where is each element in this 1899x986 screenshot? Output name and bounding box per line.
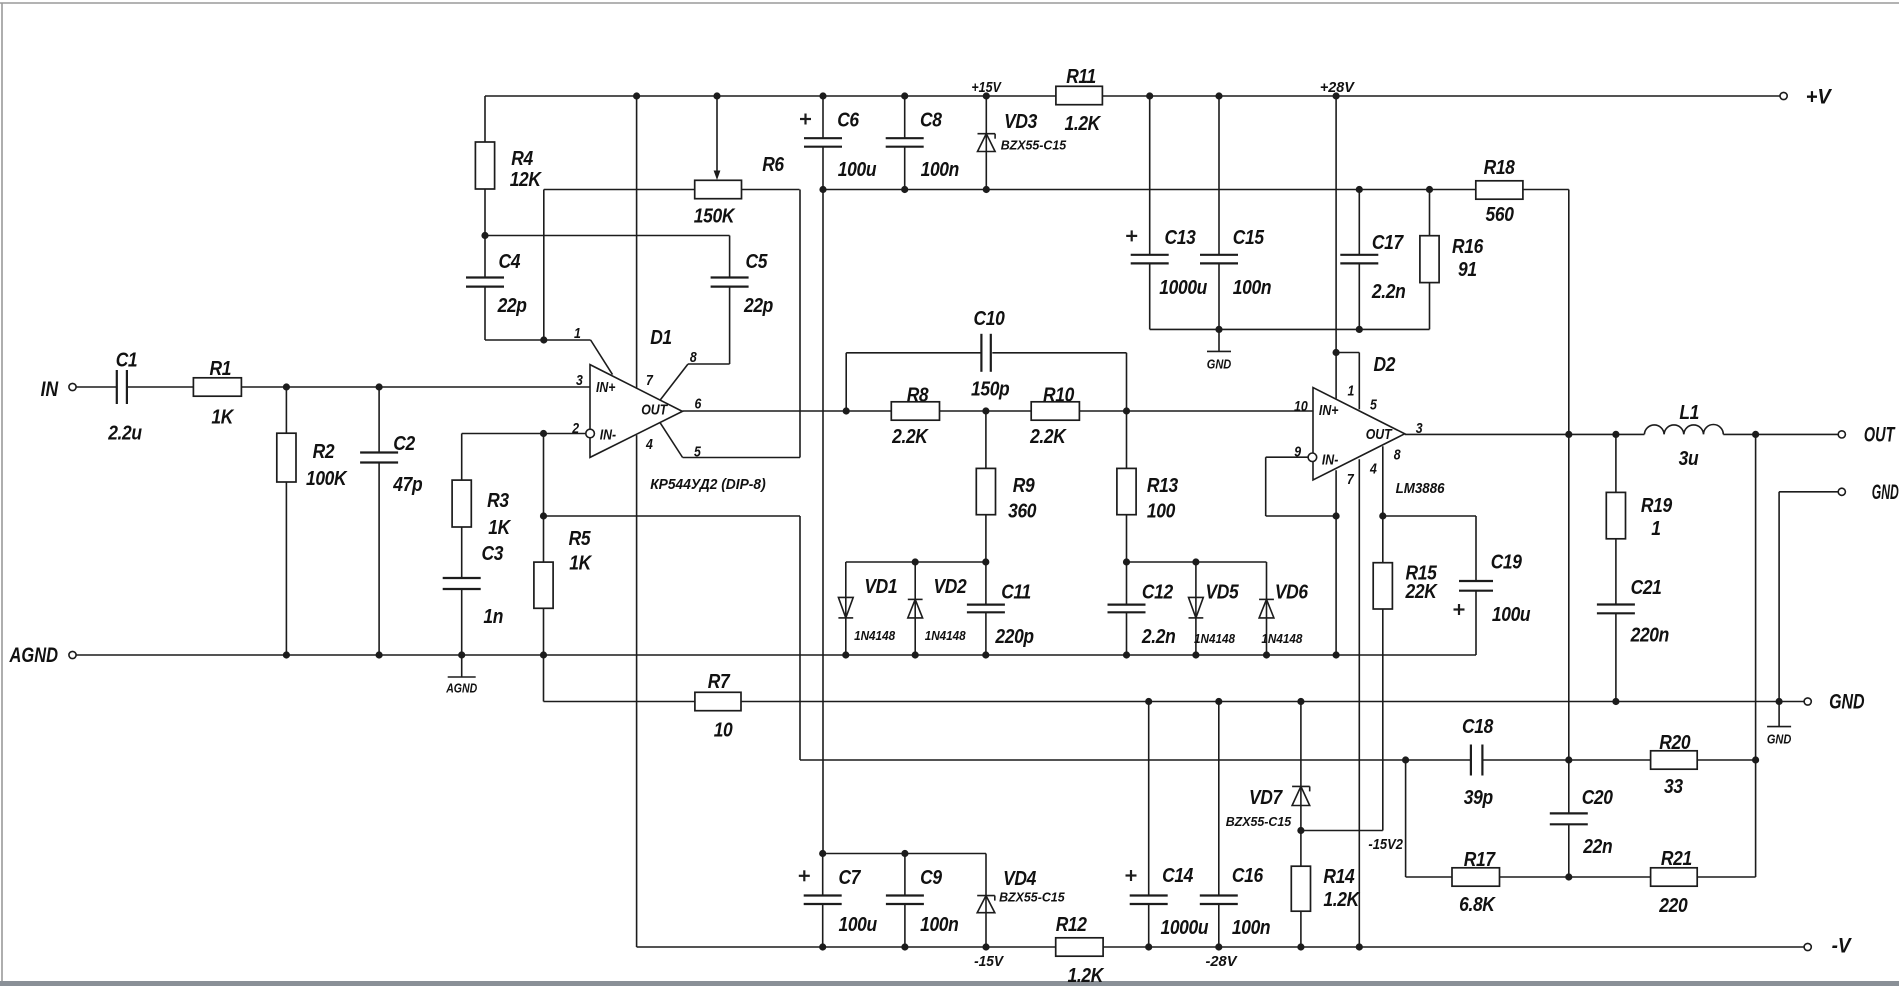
svg-text:2.2n: 2.2n <box>1371 281 1405 304</box>
wire R2 branch x=286.4 <box>285 387 287 655</box>
wire R17/R21 row y=877 <box>1406 876 1756 878</box>
wire D1 pin8 diagonal <box>660 364 688 400</box>
node D1 pin2 <box>540 430 547 437</box>
wire D2 feedback left leg x=1265.7 <box>1265 457 1267 516</box>
capacitor C10 <box>980 334 982 372</box>
svg-text:150K: 150K <box>694 205 736 228</box>
svg-text:1: 1 <box>1347 383 1354 399</box>
svg-text:VD7: VD7 <box>1249 787 1284 810</box>
capacitor C19 (electrolytic) <box>1459 580 1493 582</box>
wire C15 x=1219 <box>1218 96 1220 255</box>
wire D2 pin5 x=1359.3 <box>1358 353 1360 410</box>
svg-text:47p: 47p <box>392 474 422 497</box>
wire D2 feedback link y=516 <box>1266 515 1336 517</box>
svg-text:BZX55-C15: BZX55-C15 <box>1226 815 1293 829</box>
node Zobel row <box>1402 756 1759 763</box>
svg-text:R9: R9 <box>1013 475 1035 498</box>
svg-text:IN-: IN- <box>600 427 617 443</box>
wire GND cap rail y=329.4 (C13/C15/C17/R16 bottoms) <box>1150 328 1430 330</box>
svg-text:GND: GND <box>1872 481 1899 504</box>
wire C10 right leg / R13 / C12 x=1126.5 <box>1126 353 1128 605</box>
svg-text:R6: R6 <box>762 154 784 177</box>
wire C6 top x=823 <box>822 96 824 138</box>
capacitor C20 <box>1550 812 1588 814</box>
node AGND rail <box>283 651 1340 658</box>
svg-text:R3: R3 <box>487 490 509 513</box>
resistor R13 <box>1117 468 1136 514</box>
capacitor C2 <box>360 451 398 453</box>
capacitor C21 <box>1597 603 1635 605</box>
svg-text:1.2K: 1.2K <box>1067 965 1104 986</box>
svg-text:IN+: IN+ <box>596 379 616 395</box>
svg-text:2.2n: 2.2n <box>1141 626 1175 649</box>
svg-text:7: 7 <box>646 372 653 388</box>
svg-text:C8: C8 <box>920 109 942 132</box>
wire R18 right drop / C20 x=1568.8 <box>1568 190 1570 814</box>
wire GND terminal drop x=1779.1 <box>1778 492 1780 727</box>
wire VD5 x=1195.9 <box>1195 562 1197 655</box>
wire R6 wiper arrow stem x=717 <box>716 96 718 176</box>
svg-text:100u: 100u <box>838 914 877 937</box>
svg-text:39p: 39p <box>1464 787 1493 810</box>
capacitor C3 <box>443 577 481 579</box>
node GND rail <box>1145 698 1783 705</box>
svg-text:1n: 1n <box>483 606 503 629</box>
svg-text:L1: L1 <box>1679 402 1699 425</box>
wire D1 OUT to D2 IN+ y=411 <box>682 410 1313 412</box>
svg-text:2.2u: 2.2u <box>107 422 142 445</box>
svg-text:C9: C9 <box>920 867 942 890</box>
svg-text:КР544УД2 (DIP-8): КР544УД2 (DIP-8) <box>650 477 766 493</box>
wire VD2 x=915.2 <box>914 562 916 655</box>
wire VD7 x=1300.9 <box>1300 702 1302 831</box>
svg-text:R18: R18 <box>1484 157 1516 180</box>
wire C19 bottom x=1476 <box>1475 591 1477 655</box>
svg-text:1K: 1K <box>569 552 592 575</box>
svg-text:-15V: -15V <box>974 954 1004 970</box>
svg-text:5: 5 <box>694 444 701 460</box>
svg-text:2.2K: 2.2K <box>1029 426 1067 449</box>
svg-text:GND: GND <box>1207 358 1232 372</box>
svg-text:220p: 220p <box>994 626 1033 649</box>
wire VD1/VD2/C11 top rail y=562 <box>846 561 986 563</box>
capacitor C9 <box>886 894 924 896</box>
svg-text:R13: R13 <box>1147 475 1179 498</box>
wire R6 lead row y=189.5 <box>544 189 800 191</box>
svg-text:100u: 100u <box>838 159 877 182</box>
svg-text:R20: R20 <box>1659 732 1691 755</box>
capacitor C18 <box>1470 745 1472 776</box>
wire C12/VD5/VD6 top rail y=562 <box>1127 561 1267 563</box>
resistor R16 <box>1420 236 1439 283</box>
wire R5 branch x=543.5 <box>543 434 545 702</box>
wire C16 x=1218.8 <box>1218 702 1220 896</box>
svg-text:1.2K: 1.2K <box>1323 889 1360 912</box>
svg-text:VD6: VD6 <box>1275 581 1309 604</box>
wire R16 x=1429.5 <box>1429 190 1431 330</box>
wire C4 bottom x=485 <box>484 287 486 340</box>
svg-text:R16: R16 <box>1452 236 1484 259</box>
svg-text:R10: R10 <box>1043 384 1075 407</box>
svg-text:R2: R2 <box>313 441 335 464</box>
node D2 V+ branch <box>1333 349 1340 356</box>
resistor R1 <box>193 378 241 396</box>
svg-text:C5: C5 <box>746 251 768 274</box>
svg-text:1N4148: 1N4148 <box>854 629 895 643</box>
wire C8 bottom x=904.7 <box>904 147 906 190</box>
capacitor C8 <box>886 137 924 139</box>
diode VD1 <box>838 597 853 618</box>
wire -V bottom rail y=947 <box>637 946 1805 948</box>
wire C19 top x=1476 <box>1475 516 1477 581</box>
wire feedback drop x=800 <box>799 516 801 760</box>
wire R3/C3 branch x=461.7 <box>461 434 463 579</box>
wire R4 branch x=485 <box>484 96 486 278</box>
wire C5 top x=729.6 <box>729 236 731 278</box>
svg-text:4: 4 <box>645 436 653 452</box>
svg-text:1K: 1K <box>211 406 234 429</box>
svg-text:3: 3 <box>576 372 583 388</box>
node IN line <box>283 383 383 390</box>
node OUT line <box>1565 431 1759 438</box>
svg-text:C11: C11 <box>1001 581 1031 604</box>
zener diode VD4 <box>977 895 995 897</box>
svg-text:8: 8 <box>690 349 697 365</box>
resistor R6 (trimmer) <box>695 180 742 198</box>
wire Zobel row y=760 <box>800 759 1471 761</box>
capacitor C15 <box>1200 254 1238 256</box>
svg-text:R21: R21 <box>1661 848 1692 871</box>
svg-text:AGND: AGND <box>9 644 58 667</box>
svg-text:R17: R17 <box>1464 849 1497 872</box>
svg-text:10: 10 <box>1294 398 1308 414</box>
wire D2 pin5 jog y=352.5 <box>1336 352 1359 354</box>
terminal GND lower <box>1804 698 1811 705</box>
wire GND rail y=701.5 <box>544 701 1805 703</box>
svg-text:1N4148: 1N4148 <box>925 629 966 643</box>
wire +V top rail (+15V/+28V) <box>485 95 1780 97</box>
resistor R19 <box>1606 492 1625 538</box>
svg-text:100n: 100n <box>1233 277 1271 300</box>
wire D1 V+ pin7 x=636.6 <box>636 96 638 389</box>
svg-text:C14: C14 <box>1162 865 1194 888</box>
svg-text:100K: 100K <box>306 468 348 491</box>
svg-text:IN: IN <box>41 378 59 401</box>
node -V rail <box>819 943 1363 950</box>
svg-text:R1: R1 <box>209 358 231 381</box>
svg-text:1000u: 1000u <box>1159 277 1207 300</box>
resistor R14 <box>1291 866 1310 911</box>
resistor R7 <box>695 692 741 710</box>
svg-text:100: 100 <box>1147 500 1176 523</box>
wire VD1 x=845.8 <box>845 562 847 655</box>
svg-text:VD4: VD4 <box>1003 868 1037 891</box>
svg-text:-28V: -28V <box>1206 954 1238 970</box>
wire D1 pin2 input y=433.5 <box>462 433 586 435</box>
wire VD6 x=1266.5 <box>1266 562 1268 655</box>
resistor R2 <box>277 433 296 482</box>
svg-text:BZX55-C15: BZX55-C15 <box>1001 139 1068 153</box>
wire C9 x=904.9 <box>904 854 906 896</box>
svg-text:100n: 100n <box>1232 917 1270 940</box>
svg-text:91: 91 <box>1458 259 1477 282</box>
svg-text:22p: 22p <box>743 295 773 318</box>
resistor R11 <box>1056 86 1103 104</box>
node D1 pin1 <box>540 336 547 343</box>
svg-text:C18: C18 <box>1462 716 1494 739</box>
svg-text:C16: C16 <box>1232 865 1264 888</box>
svg-text:2.2K: 2.2K <box>891 426 929 449</box>
capacitor C13 (electrolytic) <box>1131 254 1169 256</box>
svg-text:OUT: OUT <box>641 402 669 418</box>
svg-text:33: 33 <box>1664 776 1683 799</box>
svg-text:220: 220 <box>1658 895 1688 918</box>
svg-text:1: 1 <box>1651 518 1660 541</box>
svg-text:OUT: OUT <box>1864 424 1896 447</box>
svg-text:R19: R19 <box>1641 495 1673 518</box>
svg-text:1K: 1K <box>488 517 511 540</box>
terminal OUT <box>1838 431 1845 438</box>
zener diode VD3 <box>978 133 996 135</box>
svg-text:D2: D2 <box>1373 354 1395 377</box>
svg-text:1: 1 <box>574 325 581 341</box>
wire D2 pin8 / R15 x=1382.8 <box>1382 446 1384 830</box>
wire C10 bypass top y=352.8 <box>846 352 981 354</box>
ground symbol GND right <box>1767 726 1791 728</box>
resistor R21 <box>1651 868 1698 886</box>
svg-text:9: 9 <box>1294 444 1301 460</box>
terminal AGND <box>69 651 76 658</box>
wire OUT line left of L1 y=434.4 <box>1405 433 1645 435</box>
diode VD2 <box>908 598 923 600</box>
wire C14 x=1148.7 <box>1148 702 1150 896</box>
svg-text:R11: R11 <box>1066 66 1096 89</box>
op-amp D1 <box>590 365 682 458</box>
svg-text:C10: C10 <box>973 308 1005 331</box>
resistor R8 <box>891 402 939 420</box>
wire IN terminal stub <box>76 386 117 388</box>
svg-text:R7: R7 <box>708 671 731 694</box>
node 0V rail y=189.5 <box>819 186 1433 193</box>
svg-text:VD5: VD5 <box>1206 581 1240 604</box>
svg-text:BZX55-C15: BZX55-C15 <box>999 891 1066 905</box>
svg-text:GND: GND <box>1829 691 1865 714</box>
svg-text:D1: D1 <box>650 327 672 350</box>
node top rail <box>633 92 1340 99</box>
wire GND upper terminal y=491.8 <box>1779 491 1838 493</box>
svg-text:2: 2 <box>571 420 579 436</box>
svg-text:100n: 100n <box>920 914 958 937</box>
svg-text:1N4148: 1N4148 <box>1194 632 1235 646</box>
svg-text:10: 10 <box>714 719 733 742</box>
capacitor C7 (electrolytic) <box>804 894 842 896</box>
svg-text:LM3886: LM3886 <box>1396 481 1446 497</box>
svg-text:4: 4 <box>1369 461 1377 477</box>
wire VD7-R15 link y=830.5 <box>1301 830 1383 832</box>
svg-text:1N4148: 1N4148 <box>1261 632 1302 646</box>
svg-text:5: 5 <box>1370 397 1377 413</box>
svg-text:C6: C6 <box>837 109 859 132</box>
svg-text:1.2K: 1.2K <box>1064 113 1101 136</box>
node D1 out row <box>843 407 1130 414</box>
diode VD5 <box>1189 597 1204 618</box>
svg-text:VD2: VD2 <box>934 576 968 599</box>
svg-text:12K: 12K <box>510 169 542 192</box>
node feedback row <box>540 512 547 519</box>
wire C2 branch x=379.1 <box>378 387 380 453</box>
svg-text:22K: 22K <box>1405 581 1438 604</box>
terminal GND upper <box>1838 488 1845 495</box>
wire C13 x=1149.7 <box>1149 96 1151 255</box>
wire D1 pin5 diagonal <box>660 423 683 458</box>
resistor R20 <box>1651 751 1698 769</box>
svg-text:C7: C7 <box>838 867 861 890</box>
node clamp rail A <box>912 558 990 565</box>
terminal IN <box>69 383 76 390</box>
wire C7/C9/VD4 top rail y=853.5 <box>823 853 986 855</box>
svg-text:8: 8 <box>1394 447 1401 463</box>
svg-text:100u: 100u <box>1492 604 1531 627</box>
wire D1 V- pin4 x=636.6 <box>636 435 638 947</box>
svg-text:22p: 22p <box>497 295 527 318</box>
capacitor C16 <box>1200 894 1238 896</box>
svg-text:C12: C12 <box>1142 581 1174 604</box>
inductor L1 <box>1644 425 1723 435</box>
op-amp D2 <box>1313 388 1405 481</box>
wire feedback row y=516 <box>544 515 801 517</box>
svg-text:R8: R8 <box>907 384 929 407</box>
wire AGND rail y=655 <box>76 654 1476 656</box>
svg-text:100n: 100n <box>921 159 959 182</box>
resistor R9 <box>976 468 995 514</box>
wire C4-C5 top link y=235.5 <box>485 235 730 237</box>
wire R6 right drop to pin5 x=800 <box>799 190 801 458</box>
wire C7 x=822.7 <box>822 854 824 896</box>
wire R19/C21 branch x=1615.9 <box>1615 434 1617 604</box>
capacitor C4 <box>466 276 504 278</box>
svg-text:IN-: IN- <box>1322 452 1339 468</box>
svg-text:C15: C15 <box>1233 227 1265 250</box>
ground symbol AGND <box>461 655 463 677</box>
svg-text:150p: 150p <box>971 378 1009 401</box>
svg-text:C4: C4 <box>498 251 520 274</box>
wire C10 left leg x=846.2 <box>845 353 847 411</box>
capacitor C17 <box>1340 254 1378 256</box>
wire C8 top x=904.7 <box>904 96 906 138</box>
node clamp rail B <box>1123 558 1200 565</box>
capacitor C6 (electrolytic) <box>804 137 842 139</box>
resistor R12 <box>1056 938 1103 956</box>
wire R15 top to C19 y=516 <box>1383 515 1476 517</box>
capacitor C1 <box>116 370 118 404</box>
svg-text:R4: R4 <box>511 148 533 171</box>
wire D1 pin5 row y=457.5 <box>683 457 800 459</box>
wire 0V decoupling rail y=189.5 (C6/C8/VD3 to C17/R16/R18) <box>823 189 1569 191</box>
wire R14 x=1300.9 <box>1300 831 1302 948</box>
resistor R4 <box>475 142 494 189</box>
node C7 rail <box>819 850 908 857</box>
wire C6 bottom / long drop to C7 rail x=823 <box>822 147 824 854</box>
resistor R10 <box>1031 402 1079 420</box>
svg-text:C13: C13 <box>1165 227 1197 250</box>
resistor R15 <box>1373 563 1392 609</box>
wire D2 pin7 x=1336.1 <box>1335 470 1337 655</box>
svg-text:220n: 220n <box>1630 624 1669 647</box>
svg-text:C3: C3 <box>481 543 503 566</box>
zener diode VD7 <box>1292 785 1310 787</box>
arrowhead R6 wiper <box>714 171 721 181</box>
svg-text:C17: C17 <box>1372 232 1405 255</box>
wire VD4 x=986 <box>985 854 987 948</box>
svg-text:GND: GND <box>1767 733 1792 747</box>
ground symbol GND mid <box>1218 329 1220 351</box>
svg-text:C2: C2 <box>393 433 415 456</box>
wire C18 branch drop x=1405.6 <box>1405 760 1407 877</box>
wire R9/C11 branch x=985.9 <box>985 411 987 605</box>
resistor R5 <box>534 562 553 608</box>
wire Zobel row right y=760 <box>1482 759 1755 761</box>
svg-text:C1: C1 <box>116 349 138 372</box>
svg-text:C19: C19 <box>1491 551 1523 574</box>
node cap GND rail <box>1215 326 1363 333</box>
svg-text:360: 360 <box>1008 500 1037 523</box>
svg-text:3u: 3u <box>1679 448 1699 471</box>
svg-text:-15V2: -15V2 <box>1368 837 1403 853</box>
svg-text:22n: 22n <box>1582 836 1612 859</box>
wire C5 bottom x=729.6 <box>729 287 731 364</box>
wire D2 V+ pin1 x=1336.1 <box>1335 96 1337 399</box>
wire VD3 branch x=986.3 <box>985 96 987 190</box>
capacitor C12 <box>1108 603 1146 605</box>
svg-text:C21: C21 <box>1631 577 1662 600</box>
resistor R18 <box>1476 181 1523 199</box>
wire D1 pin8 jog y=364 <box>688 363 730 365</box>
resistor R3 <box>452 480 471 527</box>
svg-text:VD3: VD3 <box>1004 111 1038 134</box>
svg-text:IN+: IN+ <box>1319 402 1339 418</box>
capacitor C14 (electrolytic) <box>1130 894 1168 896</box>
wire C10 bypass top right y=352.8 <box>992 352 1126 354</box>
svg-text:OUT: OUT <box>1366 426 1394 442</box>
wire IN line y=387 <box>127 386 590 388</box>
svg-text:R14: R14 <box>1323 866 1355 889</box>
node R17/R21 row <box>1565 873 1572 880</box>
wire D2 pin4 x=1359.3 <box>1358 459 1360 947</box>
wire D2 pin9 stub y=457.2 <box>1266 456 1308 458</box>
terminal -V <box>1804 943 1811 950</box>
diode VD6 <box>1259 598 1274 600</box>
svg-text:AGND: AGND <box>445 682 477 696</box>
svg-text:VD1: VD1 <box>864 576 897 599</box>
capacitor C5 <box>711 276 749 278</box>
node R4/C4 <box>481 232 488 239</box>
wire D1 pin1 diagonal <box>591 340 613 375</box>
svg-text:6: 6 <box>695 396 702 412</box>
node D2 feedback <box>1333 512 1387 519</box>
node VD7/R14 <box>1297 827 1304 834</box>
capacitor C11 <box>967 603 1005 605</box>
wire C17 x=1359.3 <box>1358 190 1360 255</box>
svg-text:7: 7 <box>1347 471 1354 487</box>
wire OUT line right of L1 y=434.4 <box>1723 433 1838 435</box>
svg-text:1000u: 1000u <box>1160 917 1208 940</box>
wire D1 pin1 feedback y=340 <box>485 339 591 341</box>
resistor R17 <box>1452 868 1500 886</box>
wire R6 left drop x=543.8 <box>543 190 545 341</box>
svg-text:3: 3 <box>1416 420 1423 436</box>
wire R20/R21 right drop x=1755.6 <box>1755 434 1757 877</box>
svg-text:C20: C20 <box>1582 787 1614 810</box>
